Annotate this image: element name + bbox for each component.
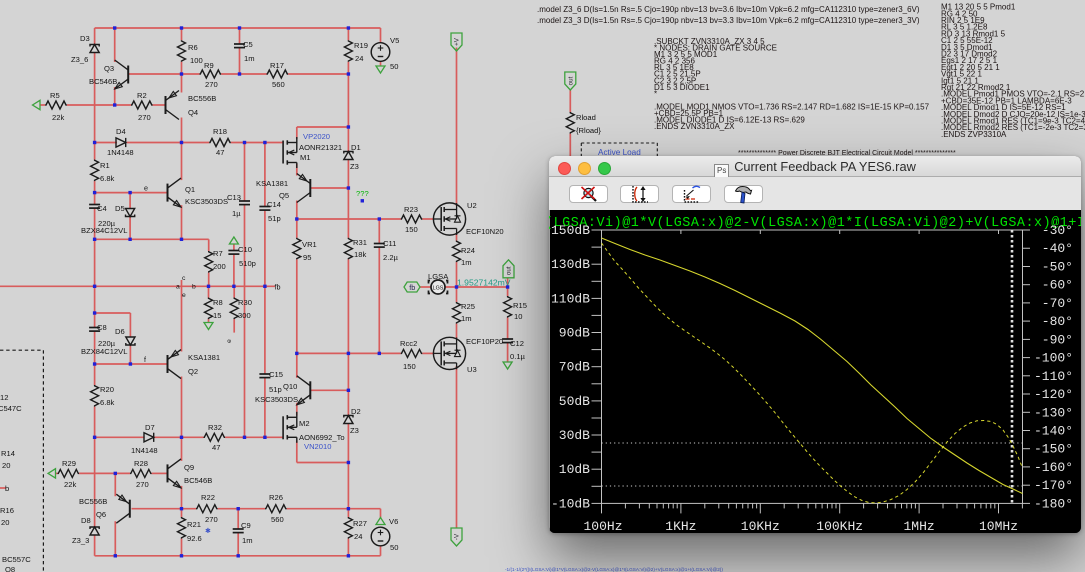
svg-text:110dB: 110dB	[551, 291, 590, 306]
plot settings icon	[685, 186, 701, 202]
svg-text:130dB: 130dB	[551, 257, 590, 272]
resistor Rload	[566, 112, 601, 135]
svg-text:fb: fb	[409, 283, 415, 292]
wire input net y105	[40, 104, 165, 106]
junction	[129, 362, 132, 365]
junction	[506, 285, 509, 288]
resistor R8	[205, 298, 223, 321]
wire +V rail x456	[456, 48, 458, 529]
svg-text:15: 15	[213, 311, 221, 320]
svg-text:270: 270	[205, 80, 218, 89]
svg-text:-180°: -180°	[1034, 496, 1073, 511]
svg-text:Q5: Q5	[279, 191, 289, 200]
capacitor C8	[89, 323, 116, 348]
svg-text:10KHz: 10KHz	[741, 519, 780, 533]
zoom icon (magnifier with red X)	[582, 187, 597, 201]
junction	[347, 554, 350, 557]
wire C14-C15 rail x265	[264, 143, 266, 438]
junction	[93, 436, 96, 439]
junction	[180, 141, 183, 144]
junction	[180, 72, 183, 75]
wire D5 stubs	[129, 193, 131, 240]
wire bottom rail y556	[95, 555, 381, 557]
resistor R29	[58, 459, 80, 489]
junction	[128, 191, 131, 194]
wire C10-R30 x234	[233, 244, 235, 333]
spice subckt text ZVN3310A	[654, 37, 930, 131]
dB axis ticks	[592, 230, 602, 503]
capacitor C4	[89, 204, 116, 228]
svg-text:Q8: Q8	[5, 565, 15, 572]
wire left rail x94	[94, 28, 96, 556]
svg-text:-160°: -160°	[1034, 460, 1073, 475]
wire Q6 pins x115	[114, 473, 116, 555]
svg-text:Z3_6: Z3_6	[71, 55, 88, 64]
wire Q10 base y390	[311, 389, 348, 391]
svg-text:D8: D8	[81, 516, 91, 525]
svg-text:R27: R27	[353, 519, 367, 528]
junction	[93, 141, 96, 144]
transistor Q10	[255, 376, 310, 405]
resistor R15	[504, 296, 527, 321]
junction	[347, 186, 350, 189]
port out	[503, 260, 514, 278]
svg-text:1N4148: 1N4148	[131, 446, 158, 455]
svg-text:47: 47	[212, 443, 220, 452]
svg-text:-50°: -50°	[1042, 260, 1073, 275]
svg-text:18k: 18k	[354, 250, 366, 259]
dashed box left subcircuit	[0, 350, 43, 572]
capacitor C9	[233, 521, 253, 545]
svg-text:KSA1381: KSA1381	[256, 179, 288, 188]
junction	[263, 141, 266, 144]
svg-text:*: *	[654, 89, 657, 98]
svg-text:22k: 22k	[64, 480, 76, 489]
svg-text:out: out	[568, 76, 575, 85]
wire x296 chain	[296, 164, 298, 416]
svg-text:Rload: Rload	[576, 113, 596, 122]
svg-text:Q9: Q9	[184, 463, 194, 472]
wire M2 gate y437	[95, 436, 283, 438]
svg-text:R22: R22	[201, 493, 215, 502]
junction	[180, 238, 183, 241]
svg-text:560: 560	[271, 515, 284, 524]
svg-text:20: 20	[1, 518, 9, 527]
resistor VR1	[293, 238, 317, 262]
hammer icon	[736, 187, 752, 204]
svg-text:270: 270	[138, 113, 151, 122]
zener D8	[72, 516, 99, 545]
junction	[237, 507, 240, 510]
port +V top	[451, 33, 462, 51]
junction	[263, 436, 266, 439]
svg-text:95: 95	[303, 253, 311, 262]
svg-text:50dB: 50dB	[559, 394, 590, 409]
wire gate net y142	[95, 142, 283, 144]
svg-text:R15: R15	[513, 301, 527, 310]
plot window	[549, 156, 1081, 533]
svg-text:R7: R7	[213, 249, 223, 258]
svg-text:e: e	[182, 292, 186, 299]
svg-text:R28: R28	[134, 459, 148, 468]
junction	[347, 26, 350, 29]
svg-text:Z3: Z3	[350, 162, 359, 171]
wire R7 net y239	[95, 239, 209, 251]
junction	[347, 72, 350, 75]
wire out-R15-C12 x507	[507, 278, 509, 363]
svg-text:10: 10	[514, 312, 522, 321]
svg-text:-40°: -40°	[1042, 241, 1073, 256]
resistor R22	[196, 493, 218, 524]
wire C8-D6 y313	[95, 313, 131, 337]
svg-text:R1: R1	[100, 161, 110, 170]
svg-text:1m: 1m	[461, 314, 472, 323]
svg-text:150dB: 150dB	[551, 223, 590, 238]
svg-text:out: out	[506, 266, 513, 275]
svg-text:C8: C8	[97, 323, 107, 332]
svg-text:270: 270	[205, 515, 218, 524]
svg-text:R16: R16	[0, 506, 14, 515]
svg-text:+V: +V	[454, 37, 461, 46]
junction	[113, 26, 116, 29]
resistor Rcc2	[400, 339, 422, 371]
svg-text:BC556B: BC556B	[188, 94, 216, 103]
junction	[347, 461, 350, 464]
svg-text:R21: R21	[187, 520, 201, 529]
wire C5 stubs	[239, 28, 241, 74]
svg-text:b: b	[192, 284, 196, 291]
dB axis labels	[551, 223, 590, 511]
resistor R25	[453, 302, 475, 324]
transistor Q9	[168, 459, 213, 488]
svg-text:270: 270	[136, 480, 149, 489]
svg-text:1µ: 1µ	[232, 209, 241, 218]
svg-text:C15: C15	[269, 370, 283, 379]
svg-text:.model Z3_3 D(Is=1.5n Rs=.5 Cj: .model Z3_3 D(Is=1.5n Rs=.5 Cjo=190p nbv…	[537, 16, 920, 25]
svg-text:50: 50	[390, 543, 398, 552]
wire R7-R8 x208	[208, 273, 210, 323]
svg-text:560: 560	[272, 80, 285, 89]
svg-text:D4: D4	[116, 127, 126, 136]
svg-text:51p: 51p	[269, 385, 282, 394]
resistor R20	[91, 385, 115, 407]
wire Q3 pins x114	[114, 28, 116, 105]
dashed box Active Load	[581, 143, 657, 157]
svg-text:90dB: 90dB	[559, 326, 590, 341]
svg-text:VP2020: VP2020	[303, 132, 330, 141]
svg-text:{Rload}: {Rload}	[576, 126, 601, 135]
capacitor C10	[228, 245, 256, 268]
svg-text:24: 24	[355, 54, 363, 63]
svg-text:-120°: -120°	[1034, 387, 1073, 402]
junction	[93, 311, 96, 314]
resistor R5	[45, 91, 67, 122]
wire top rail	[95, 28, 381, 43]
svg-text:U3: U3	[467, 365, 477, 374]
svg-text:1m: 1m	[244, 54, 255, 63]
svg-text:b: b	[5, 484, 9, 493]
svg-text:2.2µ: 2.2µ	[383, 253, 399, 262]
svg-text:-10dB: -10dB	[551, 496, 590, 511]
svg-text:100: 100	[190, 56, 203, 65]
wire Q3-base rail y74	[128, 73, 349, 75]
svg-text:-60°: -60°	[1042, 278, 1073, 293]
junction	[237, 554, 240, 557]
svg-text:150: 150	[405, 225, 418, 234]
svg-text:Z3_3: Z3_3	[72, 536, 89, 545]
svg-text:LGSA: LGSA	[428, 272, 449, 281]
wire x182 chain	[181, 28, 183, 556]
resistor R18	[209, 127, 231, 157]
svg-text:R32: R32	[208, 423, 222, 432]
wire e net y192	[95, 192, 168, 194]
svg-text:f: f	[144, 355, 146, 364]
svg-text:M1: M1	[300, 153, 311, 162]
svg-text:ECF10N20: ECF10N20	[466, 227, 504, 236]
transistor Q4	[166, 91, 217, 120]
svg-text:D1 5 3 DIODE1: D1 5 3 DIODE1	[654, 83, 710, 92]
zener D5	[115, 204, 135, 217]
svg-text:Q6: Q6	[96, 510, 106, 519]
junction	[180, 436, 183, 439]
phase curve (dashed)	[602, 243, 1023, 503]
svg-text:KSC3503DS: KSC3503DS	[255, 395, 298, 404]
svg-text:BZX84C12VL: BZX84C12VL	[81, 347, 127, 356]
svg-text:-1/(1-1/(2*((I(LGSA:Vi)@1*V(LG: -1/(1-1/(2*((I(LGSA:Vi)@1*V(LGSA:x)@2-V(…	[505, 567, 723, 572]
svg-text:24: 24	[354, 532, 362, 541]
svg-text:LGS: LGS	[433, 286, 444, 292]
svg-text:R26: R26	[269, 493, 283, 502]
svg-text:D3: D3	[80, 34, 90, 43]
junction	[93, 191, 96, 194]
transistor Q1	[168, 178, 229, 207]
svg-text:e: e	[144, 184, 148, 193]
svg-text:Q2: Q2	[188, 367, 198, 376]
svg-text:50: 50	[390, 62, 398, 71]
wire lgsa out y287	[420, 286, 508, 288]
svg-text:10MHz: 10MHz	[979, 519, 1018, 533]
junction	[378, 217, 381, 220]
transistor Q3	[89, 60, 128, 89]
junction	[93, 362, 96, 365]
wire x348 rail	[347, 28, 349, 556]
gain curve (solid)	[602, 238, 1023, 494]
junction	[347, 507, 350, 510]
mosfet M2 VN2010	[283, 412, 309, 443]
resistor R19	[344, 40, 368, 63]
junction	[243, 436, 246, 439]
spice model text zener	[537, 5, 920, 25]
svg-text:510p: 510p	[239, 259, 256, 268]
resistor R23	[401, 205, 423, 234]
resistor R30	[230, 298, 252, 321]
svg-text:1m: 1m	[461, 258, 472, 267]
wire M1 drain y127	[297, 127, 349, 139]
resistor R9	[200, 61, 222, 89]
svg-text:1KHz: 1KHz	[665, 519, 696, 533]
svg-text:70dB: 70dB	[559, 360, 590, 375]
cursor dotted horizontal lines	[602, 442, 1023, 444]
svg-text:ECF10P20: ECF10P20	[466, 337, 503, 346]
svg-text:1N4148: 1N4148	[107, 148, 134, 157]
svg-text:C11: C11	[383, 239, 396, 248]
resistor R17	[267, 61, 289, 89]
transistor Q5	[256, 174, 310, 203]
wire f net y364	[95, 363, 168, 365]
svg-text:R31: R31	[353, 238, 367, 247]
svg-text:300: 300	[238, 311, 251, 320]
current probe LGSA	[428, 272, 449, 294]
plot frame	[602, 230, 1023, 503]
port above V6	[376, 518, 385, 525]
resistor R32	[204, 423, 226, 452]
resistor R26	[265, 493, 287, 524]
svg-text:-V: -V	[454, 533, 461, 540]
svg-text:-130°: -130°	[1034, 405, 1073, 420]
svg-text:R20: R20	[100, 385, 114, 394]
junction	[361, 199, 364, 202]
phase axis ticks	[1023, 230, 1031, 503]
wire net a/b y286	[0, 285, 275, 287]
svg-text:VR1: VR1	[302, 240, 317, 249]
junction	[238, 72, 241, 75]
svg-text:C10: C10	[238, 245, 252, 254]
svg-text:Q4: Q4	[188, 108, 198, 117]
wire C11 x379	[378, 219, 380, 353]
junction	[378, 352, 381, 355]
wire V5 stem	[380, 61, 382, 66]
svg-text:R18: R18	[213, 127, 227, 136]
capacitor C13	[227, 193, 250, 218]
svg-text:R24: R24	[461, 246, 475, 255]
svg-text:100KHz: 100KHz	[816, 519, 863, 533]
svg-text:D2: D2	[351, 407, 361, 416]
zener D1	[344, 143, 361, 171]
resistor R31	[344, 238, 367, 260]
svg-text:fb: fb	[275, 283, 281, 292]
resistor R1	[91, 160, 115, 184]
svg-text:200: 200	[213, 262, 226, 271]
voltage source V5	[371, 36, 399, 71]
svg-text:R14: R14	[1, 449, 15, 458]
svg-text:BZX84C12VL: BZX84C12VL	[81, 226, 127, 235]
port out top	[565, 72, 576, 90]
svg-text:C9: C9	[241, 521, 251, 530]
junction	[180, 554, 183, 557]
svg-text:47: 47	[216, 148, 224, 157]
capacitor C5	[234, 40, 255, 63]
svg-text:R2: R2	[137, 91, 147, 100]
wire U3 gate y353	[297, 352, 434, 354]
svg-text:C14: C14	[267, 200, 281, 209]
svg-text:C12: C12	[510, 339, 524, 348]
resistor R2	[131, 91, 153, 122]
svg-text:1.9527142mV: 1.9527142mV	[457, 278, 511, 288]
resistor R24	[453, 241, 475, 268]
junction	[347, 125, 350, 128]
voltage source V6	[371, 517, 398, 552]
svg-text:VN2010: VN2010	[304, 442, 331, 451]
phase axis labels	[1034, 223, 1073, 511]
svg-text:-90°: -90°	[1042, 332, 1073, 347]
junction	[207, 285, 210, 288]
junction	[243, 141, 246, 144]
resistor R21	[178, 517, 202, 543]
junction	[347, 352, 350, 355]
svg-text:0.1µ: 0.1µ	[510, 352, 526, 361]
wire R22-R26 y508	[132, 509, 381, 518]
junction	[93, 238, 96, 241]
svg-text:R6: R6	[188, 43, 198, 52]
spice subckt text ZVP3310A	[941, 3, 1085, 139]
junction	[180, 507, 183, 510]
svg-text:BC556B: BC556B	[79, 497, 107, 506]
port fb	[404, 282, 420, 292]
svg-text:.ENDS ZVN3310A_ZX: .ENDS ZVN3310A_ZX	[654, 122, 735, 131]
svg-text:KSA1381: KSA1381	[188, 353, 220, 362]
svg-text:-150°: -150°	[1034, 442, 1073, 457]
svg-text:BC557C: BC557C	[2, 555, 31, 564]
resistor R28	[130, 459, 152, 489]
svg-text:10dB: 10dB	[559, 462, 590, 477]
svg-text:-30°: -30°	[1042, 223, 1073, 238]
svg-text:-110°: -110°	[1034, 369, 1073, 384]
junction	[93, 285, 96, 288]
transistor Q2	[168, 350, 221, 379]
svg-text:C5: C5	[243, 40, 253, 49]
zener D3	[71, 34, 99, 64]
frequency axis ticks	[602, 230, 999, 513]
wire b stub in box	[0, 487, 6, 489]
svg-text:Rcc2: Rcc2	[400, 339, 417, 348]
junction	[238, 26, 241, 29]
diode D4	[107, 127, 134, 157]
mosfet M1 VP2020	[283, 137, 310, 168]
svg-text:R23: R23	[404, 205, 418, 214]
svg-text:M2: M2	[299, 419, 310, 428]
port below C12	[503, 362, 512, 369]
svg-text:R19: R19	[354, 41, 368, 50]
svg-text:V5: V5	[390, 36, 399, 45]
svg-text:.ENDS ZVP3310A: .ENDS ZVP3310A	[941, 130, 1007, 139]
port input In	[33, 100, 41, 109]
svg-text:-100°: -100°	[1034, 351, 1073, 366]
svg-text:R17: R17	[270, 61, 284, 70]
svg-text:AONR21321: AONR21321	[299, 143, 342, 152]
wire M2-D2 y462	[297, 441, 349, 463]
svg-text:20: 20	[2, 461, 10, 470]
svg-text:.model Z3_6 D(Is=1.5n Rs=.5 Cj: .model Z3_6 D(Is=1.5n Rs=.5 Cjo=190p nbv…	[537, 5, 920, 14]
svg-text:6.8k: 6.8k	[100, 174, 115, 183]
svg-text:-170°: -170°	[1034, 478, 1073, 493]
autorange icon	[633, 186, 648, 202]
junction	[113, 103, 116, 106]
svg-text:1m: 1m	[242, 536, 253, 545]
transistor Q6	[79, 494, 130, 523]
capacitor C12	[502, 339, 525, 361]
svg-text:Q1: Q1	[185, 185, 195, 194]
svg-text:51p: 51p	[268, 214, 281, 223]
svg-text:(LGSA:Vi)@1*V(LGSA:x)@2-V(LGSA: (LGSA:Vi)@1*V(LGSA:x)@2-V(LGSA:x)@1*I(LG…	[549, 216, 1081, 231]
junction	[347, 389, 350, 392]
port above C10	[229, 237, 238, 244]
svg-text:C4: C4	[97, 204, 107, 213]
svg-text:100Hz: 100Hz	[583, 519, 622, 533]
svg-text:C13: C13	[227, 193, 241, 202]
wire U2 gate y219	[297, 218, 434, 220]
junction	[295, 217, 298, 220]
zener D6	[115, 327, 135, 345]
